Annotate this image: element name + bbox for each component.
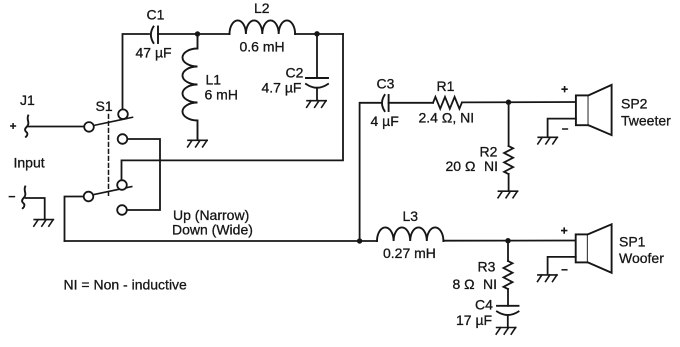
label SP1 minus (562, 269, 567, 271)
svg-text:C4: C4 (475, 297, 493, 313)
inductor L1 (183, 34, 198, 140)
switch S1 mechanical link dashed (108, 115, 110, 197)
ground R2 (498, 191, 518, 198)
node B junction dot (314, 31, 319, 36)
label J1 plus sign (11, 124, 16, 129)
svg-text:47 µF: 47 µF (136, 45, 172, 61)
capacitor C2 (306, 77, 328, 79)
ground L1 (188, 140, 208, 147)
wire input minus to ground (26, 198, 45, 219)
ground SP1 (538, 275, 558, 282)
svg-text:4 µF: 4 µF (371, 113, 399, 129)
switch S1 pole1 arm (93, 117, 133, 125)
ground input (34, 220, 54, 227)
switch S1 pole2 down contact (117, 205, 127, 215)
svg-text:Woofer: Woofer (619, 250, 664, 266)
svg-text:L1: L1 (206, 72, 222, 88)
switch S1 pole1 down contact (118, 134, 128, 144)
wire C3 branch vertical (360, 103, 381, 241)
wire network output down to S1 pole2 up throw (122, 34, 344, 180)
svg-text:17 µF: 17 µF (456, 312, 492, 328)
wire R3 to C4 (507, 289, 509, 306)
svg-text:Input: Input (14, 155, 45, 171)
svg-text:S1: S1 (96, 98, 113, 114)
wire node to R2 (508, 102, 510, 146)
label SP2 plus (562, 87, 567, 92)
wire node to R3 (507, 241, 509, 261)
svg-text:SP2: SP2 (621, 96, 648, 112)
wire SP1 minus to ground (548, 257, 576, 275)
svg-text:Down (Wide): Down (Wide) (172, 222, 253, 238)
label J1 minus sign (9, 196, 14, 198)
resistor R1 (433, 97, 462, 109)
svg-text:4.7 µF: 4.7 µF (262, 80, 302, 96)
svg-text:0.6 mH: 0.6 mH (240, 39, 285, 55)
svg-text:SP1: SP1 (619, 234, 646, 250)
resistor R2 (504, 146, 513, 174)
wire C4 to ground (507, 316, 509, 328)
wire bottom rail (65, 240, 378, 242)
node C3 branch junction dot (357, 238, 362, 243)
connector J1 tip contact (25, 116, 28, 137)
svg-text:J1: J1 (20, 92, 35, 108)
ground C4 (496, 328, 516, 335)
svg-text:C3: C3 (377, 76, 395, 92)
ground C2 (307, 101, 327, 108)
wire pole1 down throw to pole2 down throw (127, 139, 160, 210)
speaker SP2 cone (589, 85, 612, 135)
wire R2 to ground (508, 174, 510, 191)
svg-text:2.4 Ω, NI: 2.4 Ω, NI (419, 110, 475, 126)
label SP2 minus (563, 128, 568, 130)
ground SP2 (538, 137, 558, 144)
wire L2 to node B (295, 33, 317, 35)
svg-text:L3: L3 (403, 208, 419, 224)
inductor L2 (230, 20, 296, 34)
svg-text:Tweeter: Tweeter (621, 113, 671, 129)
svg-text:8 ΩNI: 8 ΩNI (453, 276, 498, 292)
connector J1 sleeve contact (22, 187, 25, 209)
node tweeter junction dot (506, 100, 511, 105)
svg-text:R3: R3 (478, 259, 496, 275)
wire node B to right corner (317, 33, 343, 35)
capacitor C4 (497, 305, 519, 307)
switch S1 pole2 up contact (117, 180, 127, 190)
capacitor C3 (382, 95, 385, 111)
switch S1 pole2 arm (93, 187, 132, 195)
wire L3 to woofer (443, 240, 575, 242)
svg-text:0.27 mH: 0.27 mH (383, 245, 436, 261)
switch S1 pole1 common contact (84, 122, 94, 132)
wire input plus to S1 (28, 126, 84, 128)
label SP1 plus (562, 228, 567, 233)
svg-text:20 ΩNI: 20 ΩNI (446, 158, 499, 174)
svg-text:C1: C1 (147, 7, 165, 23)
svg-text:NI = Non - inductive: NI = Non - inductive (64, 277, 188, 293)
speaker SP2 frame (576, 95, 589, 125)
switch S1 pole2 common contact (84, 192, 94, 202)
wire R1 to tweeter (462, 101, 576, 103)
wire C2 to ground (316, 88, 318, 100)
resistor R3 (504, 261, 513, 289)
speaker SP1 frame (576, 234, 588, 262)
wire node A to L2 (198, 33, 230, 35)
svg-text:L2: L2 (254, 0, 270, 16)
wire pole2 common to bottom rail (65, 197, 84, 242)
node woofer junction dot (505, 238, 510, 243)
inductor L3 (377, 227, 443, 241)
wire C3 to R1 (389, 102, 433, 104)
wire C1 to node A (158, 33, 198, 35)
svg-text:C2: C2 (286, 65, 304, 81)
wire SP2 minus to ground (548, 119, 576, 137)
node A junction dot (195, 31, 200, 36)
wire S1 up throw to C1 (123, 34, 150, 110)
wire node B to C2 (316, 34, 318, 78)
capacitor C1 (151, 27, 154, 44)
speaker SP1 cone (588, 224, 612, 272)
switch S1 pole1 up contact (118, 109, 128, 119)
svg-text:6 mH: 6 mH (205, 87, 238, 103)
svg-text:R1: R1 (437, 78, 455, 94)
